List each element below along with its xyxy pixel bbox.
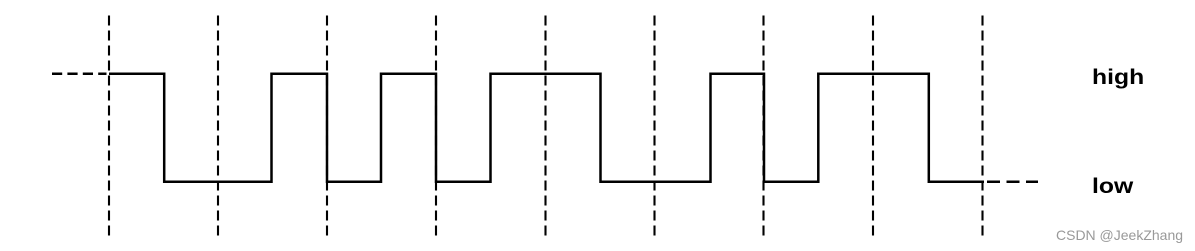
bit boundary dashed line 2 [217,16,219,238]
signal lead-out dashed low segment [987,181,1038,184]
label low [1092,176,1133,198]
label high [1092,67,1144,89]
bit boundary dashed line 9 [981,16,983,238]
bit boundary dashed line 3 [326,16,328,238]
bit boundary dashed line 5 [544,16,546,238]
signal waveform [109,74,984,182]
signal lead-in dashed high segment [52,73,107,76]
bit boundary dashed line 4 [435,16,437,238]
watermark CSDN @JeekZhang [1056,228,1183,242]
bit boundary dashed line 7 [762,16,764,238]
bit boundary dashed line 6 [653,16,655,238]
bit boundary dashed line 1 [108,16,110,238]
bit boundary dashed line 8 [872,16,874,238]
